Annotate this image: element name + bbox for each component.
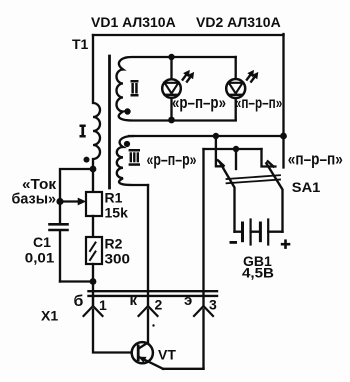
- svg-text:4,5В: 4,5В: [242, 265, 274, 281]
- svg-text:R1: R1: [105, 190, 123, 206]
- wire VD2 bottom lead: [235, 98, 237, 120]
- winding III polarity dot: [124, 141, 130, 147]
- wire base node to the left (from winding I bottom): [60, 169, 93, 223]
- svg-text:R2: R2: [105, 236, 123, 252]
- winding I polarity dot: [84, 157, 90, 163]
- resistor R1: [86, 192, 102, 216]
- battery plus sign: [281, 239, 291, 249]
- svg-text:0,01: 0,01: [25, 250, 55, 266]
- svg-text:300: 300: [105, 251, 131, 267]
- transistor VT: [132, 342, 163, 369]
- resistor R2: [86, 237, 102, 264]
- wire pin 1 to VT base: [93, 310, 132, 353]
- transformer T1 winding I: [93, 35, 100, 192]
- wire pin 2 to VT collector: [147, 310, 149, 344]
- mechanical coupling bar: [227, 175, 281, 179]
- svg-text:Т1: Т1: [72, 36, 89, 52]
- svg-text:2: 2: [155, 297, 163, 313]
- connector X1 body rails: [89, 290, 218, 292]
- wire right rail vertical: [282, 34, 284, 168]
- svg-text:базы»: базы»: [12, 191, 57, 208]
- svg-text:к: к: [130, 292, 138, 309]
- fixed contact right-left (from upper rail right end): [262, 149, 276, 167]
- svg-text:«п–р–п»: «п–р–п»: [235, 95, 283, 112]
- svg-text:SA1: SA1: [292, 179, 321, 195]
- svg-text:VD1 АЛ310А: VD1 АЛ310А: [91, 14, 176, 30]
- svg-text:Х1: Х1: [41, 308, 58, 324]
- battery minus sign: [230, 241, 238, 244]
- winding II polarity dot: [124, 108, 130, 114]
- svg-text:б: б: [74, 293, 84, 310]
- winding label III: [129, 149, 140, 166]
- battery GB1: [235, 220, 283, 245]
- svg-text:1: 1: [99, 297, 107, 313]
- svg-text:«п–р–п»: «п–р–п»: [288, 149, 343, 168]
- capacitor C1: [50, 224, 68, 281]
- wire pin 3 to VT emitter: [202, 310, 204, 369]
- connector X1 contact 3 (э): [194, 306, 213, 316]
- svg-text:3: 3: [209, 297, 217, 313]
- wire top rail from T1 winding I top to right rail: [93, 34, 284, 36]
- winding label I: [80, 125, 86, 138]
- left arm: [220, 162, 235, 232]
- fixed contact center (from upper rail): [235, 149, 237, 169]
- wire emitter rail: switch to connector pin 3: [202, 149, 204, 306]
- transformer T1 winding III: [117, 136, 148, 185]
- wire C1 bottom to R2 bottom junction: [60, 280, 93, 282]
- wire SA1 upper rail: [204, 148, 262, 150]
- wire VD1 top lead: [170, 57, 172, 79]
- svg-text:«р–п–р»: «р–п–р»: [147, 151, 197, 169]
- wire winding III bottom down to connector pin 2: [147, 185, 149, 306]
- svg-text:С1: С1: [33, 234, 51, 250]
- wire VT emitter to pin 3: [163, 368, 204, 370]
- wire R2 down to connector pin 1: [92, 264, 94, 306]
- transformer T1 core: [108, 56, 111, 188]
- transformer T1 winding III top wire (rail to switch): [129, 135, 284, 137]
- svg-text:«р–п–р»: «р–п–р»: [172, 94, 226, 112]
- wire R1 to R2: [92, 216, 94, 237]
- ink speck above VT: [152, 324, 154, 326]
- switch SA1: [216, 136, 283, 232]
- svg-text:15k: 15k: [105, 205, 129, 221]
- connector X1 contact 1 (б): [84, 296, 103, 316]
- connector X1 contact 2 (к): [139, 306, 158, 316]
- wire VD1 bottom lead: [170, 98, 172, 120]
- wire VD2 top lead: [235, 57, 237, 79]
- winding label II: [131, 80, 139, 97]
- LED VD2: [226, 71, 258, 98]
- fixed contact left (from LED rail): [216, 136, 223, 166]
- junction node dots: [168, 54, 174, 60]
- svg-text:VT: VT: [158, 347, 176, 363]
- annotation arrow Ток базы: [60, 200, 80, 202]
- transformer T1 winding II: [117, 57, 236, 121]
- svg-text:VD2 АЛ310А: VD2 АЛ310А: [196, 14, 281, 30]
- svg-text:э: э: [184, 292, 192, 309]
- LED VD1: [162, 71, 193, 98]
- right arm: [266, 163, 282, 232]
